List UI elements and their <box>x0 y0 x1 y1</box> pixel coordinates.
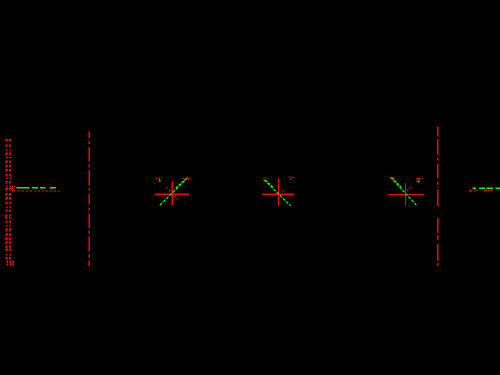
red hidden line (right) <box>469 190 498 192</box>
axis symbol 2: red dot east <box>282 190 283 191</box>
red hidden line (left) <box>18 190 61 191</box>
axis symbol 3: red dashed NE diagonal <box>407 186 411 190</box>
axis symbol 3: green diagonal <box>391 177 417 205</box>
axis symbol 2: NE label <box>288 177 294 181</box>
axis symbol 3: NW label dots <box>390 177 395 179</box>
axis symbol 1: red dotted anti-diagonal <box>167 187 179 200</box>
axis symbol 2: green diagonal (double) <box>266 180 274 188</box>
axis symbol 2: NW label dots <box>262 177 268 181</box>
axis symbol 1: green diagonal <box>160 178 187 205</box>
plot-stamp text column (rotated, left edge) <box>5 139 14 265</box>
green phantom line (right) <box>472 188 500 189</box>
axis symbol 3: green diagonal (double) <box>392 178 401 187</box>
axis symbol 1: green diagonal (double) <box>176 177 188 188</box>
left lead-in tick marks <box>12 186 15 192</box>
axis symbol 3: red cross <box>388 183 425 206</box>
green phantom line (left) <box>17 187 56 188</box>
axis symbol 1: red cross <box>155 182 189 206</box>
axis symbol 1: NE label dots <box>183 178 191 180</box>
axis symbol 3: NE label <box>416 178 423 183</box>
axis symbol 2: green diagonal <box>264 180 291 206</box>
centerline 2 (vertical dash-dot) <box>437 126 438 266</box>
axis symbol 2: red cross <box>262 178 294 206</box>
centerline 1 (vertical dash-dot) <box>89 132 90 267</box>
axis symbol 1: NW label <box>156 177 162 182</box>
plot-stamp column end marks <box>7 260 8 263</box>
